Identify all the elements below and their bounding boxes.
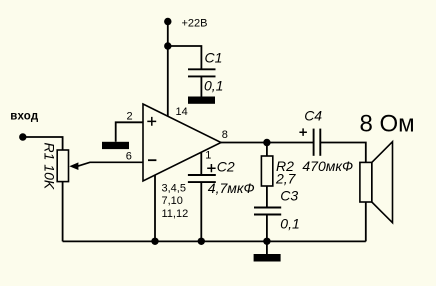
wire C3 to rail <box>266 215 268 242</box>
ground (pin 2) <box>102 142 129 149</box>
node junction top <box>164 42 171 49</box>
R1 wiper arrowhead <box>69 162 78 170</box>
svg-text:0,1: 0,1 <box>280 216 299 232</box>
svg-text:C3: C3 <box>280 188 298 204</box>
node output junction <box>263 139 270 146</box>
speaker LS1 body <box>360 162 372 202</box>
svg-text:8 Ом: 8 Ом <box>360 110 415 137</box>
pin 8 output wire <box>221 142 314 144</box>
wire input to R1 <box>23 137 63 150</box>
input terminal <box>19 133 26 140</box>
capacitor C4 <box>314 129 321 156</box>
svg-text:6: 6 <box>126 150 132 162</box>
wire ground pins of U1 <box>154 175 156 241</box>
svg-text:2: 2 <box>127 110 133 122</box>
svg-text:4,7мкФ: 4,7мкФ <box>208 180 255 196</box>
speaker cone <box>372 142 393 223</box>
svg-text:C1: C1 <box>205 50 223 66</box>
resistor R2 <box>261 156 272 186</box>
svg-text:7,10: 7,10 <box>162 195 183 207</box>
svg-text:470мкФ: 470мкФ <box>302 158 353 174</box>
node junction rail 1 <box>151 238 158 245</box>
svg-text:+22В: +22В <box>182 18 208 30</box>
wire C4 to speaker <box>320 143 366 163</box>
svg-text:вход: вход <box>10 111 39 123</box>
pin 1 wire to C2 <box>200 152 202 175</box>
svg-text:C4: C4 <box>304 108 322 124</box>
wire junction to R2 <box>266 143 268 157</box>
C4 polarity + <box>299 128 307 136</box>
wire C1 to ground <box>200 76 202 96</box>
op-amp - input mark <box>148 159 156 161</box>
op-amp + input mark <box>147 117 156 126</box>
svg-text:8: 8 <box>222 129 228 141</box>
svg-text:14: 14 <box>176 106 188 118</box>
wire R1 bottom to rail <box>62 182 64 242</box>
svg-text:3,4,5: 3,4,5 <box>162 183 186 195</box>
wire pin 2 <box>116 122 143 142</box>
C2 polarity + <box>207 164 215 172</box>
node junction rail 3 <box>263 238 270 245</box>
wire +22V vertical to pin 14 <box>167 22 169 117</box>
capacitor C2 <box>188 175 216 182</box>
wire junction to bottom ground <box>266 241 268 254</box>
op-amp U1 triangle <box>143 104 221 181</box>
capacitor C3 <box>254 208 281 215</box>
node junction rail 2 <box>198 238 205 245</box>
svg-text:0,1: 0,1 <box>204 78 223 94</box>
wire pin 6 to R1 wiper <box>78 162 143 166</box>
svg-text:R1 10K: R1 10K <box>42 143 58 190</box>
ground (bottom) <box>254 254 281 262</box>
resistor R1 (potentiometer) <box>57 150 68 182</box>
wire C2 to rail <box>200 182 202 241</box>
terminal +22V <box>164 18 171 25</box>
ground (under C1) <box>188 97 215 104</box>
wire bottom rail <box>63 240 366 242</box>
svg-text:2,7: 2,7 <box>275 170 297 186</box>
capacitor C1 <box>188 69 216 76</box>
wire speaker to rail <box>365 202 367 241</box>
wire R2 to C3 <box>266 186 268 207</box>
svg-text:1: 1 <box>205 150 211 162</box>
svg-text:11,12: 11,12 <box>162 208 189 220</box>
wire junction to C1 <box>168 46 202 69</box>
svg-text:C2: C2 <box>217 158 235 174</box>
